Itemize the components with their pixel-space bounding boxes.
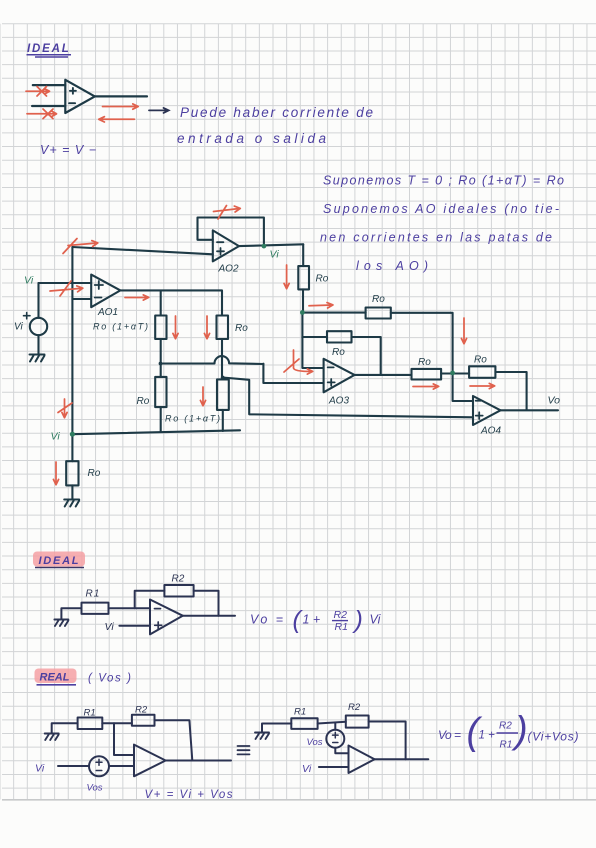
svg-text:Vi: Vi xyxy=(14,322,23,333)
svg-text:R2: R2 xyxy=(172,574,185,585)
svg-text:AO3: AO3 xyxy=(328,396,349,407)
svg-text:R2: R2 xyxy=(499,721,512,732)
svg-text:IDEAL: IDEAL xyxy=(39,555,80,567)
svg-text:V+ = Vi + Vos: V+ = Vi + Vos xyxy=(145,789,233,801)
svg-text:Ro (1+αT): Ro (1+αT) xyxy=(93,322,148,332)
svg-text:Vo =: Vo = xyxy=(438,728,461,742)
svg-text:Vo =: Vo = xyxy=(250,613,283,627)
svg-text:R1: R1 xyxy=(86,589,101,600)
svg-text:Vo: Vo xyxy=(548,395,561,407)
svg-text:Vi: Vi xyxy=(35,763,45,775)
svg-text:AO2: AO2 xyxy=(218,264,239,275)
svg-text:R2: R2 xyxy=(334,609,348,621)
svg-text:AO4: AO4 xyxy=(480,426,501,437)
svg-text:R1: R1 xyxy=(294,707,306,718)
svg-text:R1: R1 xyxy=(84,708,96,719)
svg-text:(Vi+Vos): (Vi+Vos) xyxy=(528,730,579,744)
svg-text:R1: R1 xyxy=(500,740,513,751)
svg-text:Ro: Ro xyxy=(316,274,329,285)
svg-text:Vi: Vi xyxy=(51,431,61,443)
svg-text:R1: R1 xyxy=(335,621,348,633)
svg-text:Suponemos T = 0 ; Ro (1+αT) =: Suponemos T = 0 ; Ro (1+αT) = Ro xyxy=(323,174,564,188)
svg-text:R2: R2 xyxy=(135,705,148,716)
svg-text:Vos: Vos xyxy=(307,737,323,748)
svg-text:R2: R2 xyxy=(348,702,361,713)
svg-text:Ro: Ro xyxy=(235,323,248,334)
svg-text:Vi: Vi xyxy=(24,275,34,287)
svg-text:Puede haber corriente de: Puede haber corriente de xyxy=(180,105,373,120)
svg-text:nen corrientes en las patas de: nen corrientes en las patas de xyxy=(320,231,552,245)
svg-text:V+ = V −: V+ = V − xyxy=(40,143,96,157)
svg-text:AO1: AO1 xyxy=(97,307,118,318)
svg-text:Ro: Ro xyxy=(88,468,101,479)
svg-text:Ro: Ro xyxy=(372,294,385,305)
svg-text:Ro: Ro xyxy=(474,355,487,366)
svg-text:IDEAL: IDEAL xyxy=(27,43,70,55)
svg-text:Ro: Ro xyxy=(137,396,150,407)
svg-text:1 +: 1 + xyxy=(479,730,496,742)
svg-text:( Vos ): ( Vos ) xyxy=(88,673,131,685)
svg-text:Suponemos AO ideales (no tie-: Suponemos AO ideales (no tie- xyxy=(323,202,559,216)
svg-text:Ro: Ro xyxy=(418,357,431,368)
svg-text:Vi: Vi xyxy=(302,763,312,775)
svg-text:Vos: Vos xyxy=(87,783,103,794)
svg-text:Vi: Vi xyxy=(270,249,280,261)
svg-text:Vi: Vi xyxy=(105,621,115,633)
svg-text:Ro (1+αT): Ro (1+αT) xyxy=(165,414,220,424)
svg-text:1 +: 1 + xyxy=(303,613,321,627)
svg-text:Ro: Ro xyxy=(332,347,345,358)
svg-text:REAL: REAL xyxy=(40,672,71,684)
svg-text:Vi: Vi xyxy=(370,613,382,627)
